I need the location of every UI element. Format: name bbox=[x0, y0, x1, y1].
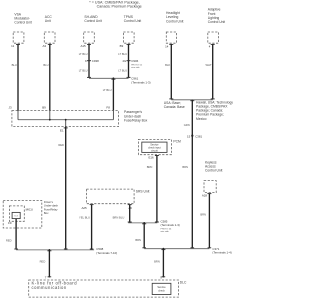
svg-text:C381: C381 bbox=[195, 135, 202, 139]
svg-text:11: 11 bbox=[11, 44, 14, 48]
svg-text:J3: J3 bbox=[9, 105, 12, 109]
svg-text:(Terminals 7-10): (Terminals 7-10) bbox=[96, 251, 117, 255]
svg-text:Service: Service bbox=[157, 286, 166, 289]
svg-text:SRS Unit: SRS Unit bbox=[136, 190, 150, 194]
svg-text:Unit: Unit bbox=[45, 19, 51, 23]
svg-text:E1: E1 bbox=[60, 129, 64, 133]
svg-text:communication: communication bbox=[32, 285, 67, 290]
svg-text:LT BLU: LT BLU bbox=[103, 88, 112, 92]
svg-text:Control Unit: Control Unit bbox=[166, 19, 183, 23]
svg-text:BLK: BLK bbox=[165, 63, 170, 67]
svg-text:Control Unit: Control Unit bbox=[124, 19, 141, 23]
svg-text:BRN: BRN bbox=[135, 238, 141, 242]
svg-text:RED: RED bbox=[58, 143, 64, 147]
svg-text:RED: RED bbox=[6, 239, 12, 243]
svg-text:F9: F9 bbox=[8, 221, 12, 225]
svg-text:BRN: BRN bbox=[154, 259, 160, 263]
svg-text:15: 15 bbox=[187, 135, 191, 139]
svg-text:(Terminals 1-3): (Terminals 1-3) bbox=[131, 80, 150, 84]
svg-text:LT BLU: LT BLU bbox=[118, 52, 127, 56]
svg-text:Fuse/Relay: Fuse/Relay bbox=[44, 207, 58, 211]
svg-text:MICU: MICU bbox=[26, 207, 33, 211]
svg-text:Canada: Premium Package: Canada: Premium Package bbox=[97, 5, 142, 9]
svg-text:A3: A3 bbox=[42, 44, 46, 48]
svg-text:(Terminals 1-3): (Terminals 1-3) bbox=[161, 223, 180, 227]
svg-text:Control Unit: Control Unit bbox=[14, 21, 31, 25]
svg-text:C906: C906 bbox=[131, 59, 138, 63]
svg-text:WHT: WHT bbox=[205, 63, 211, 67]
svg-text:BRN: BRN bbox=[182, 165, 188, 169]
svg-text:wire side: wire side bbox=[131, 66, 140, 69]
svg-text:F8: F8 bbox=[106, 105, 110, 109]
svg-text:PCM: PCM bbox=[173, 140, 181, 144]
svg-text:Driver's: Driver's bbox=[44, 200, 54, 204]
svg-text:A28: A28 bbox=[202, 193, 208, 197]
svg-text:Control Unit: Control Unit bbox=[205, 169, 222, 173]
svg-text:Box: Box bbox=[44, 211, 49, 215]
svg-text:Mexico: Mexico bbox=[196, 117, 207, 121]
svg-text:BLU: BLU bbox=[43, 63, 48, 67]
svg-text:BRN BLU: BRN BLU bbox=[113, 215, 125, 219]
svg-text:LT BLU: LT BLU bbox=[79, 52, 88, 56]
svg-text:B9: B9 bbox=[42, 105, 46, 109]
svg-text:(Terminals 1-4): (Terminals 1-4) bbox=[212, 251, 231, 255]
svg-text:A15: A15 bbox=[80, 44, 86, 48]
svg-text:A25: A25 bbox=[81, 206, 87, 210]
svg-text:BRN: BRN bbox=[200, 212, 206, 216]
svg-text:Control Unit: Control Unit bbox=[84, 19, 101, 23]
svg-text:C938: C938 bbox=[92, 59, 99, 63]
svg-text:BRN: BRN bbox=[147, 165, 153, 169]
svg-text:Under-dash: Under-dash bbox=[44, 204, 59, 208]
svg-text:14: 14 bbox=[165, 45, 169, 49]
svg-text:wire side: wire side bbox=[161, 230, 170, 233]
svg-text:circuit: circuit bbox=[151, 149, 158, 152]
svg-text:Canada: Base: Canada: Base bbox=[164, 105, 185, 109]
svg-text:LT BLU: LT BLU bbox=[118, 68, 127, 72]
svg-text:RED: RED bbox=[40, 259, 46, 263]
svg-text:Fuse/Relay Box: Fuse/Relay Box bbox=[124, 119, 148, 123]
svg-text:LT BLU: LT BLU bbox=[79, 68, 88, 72]
svg-text:YEL BLU: YEL BLU bbox=[79, 215, 90, 219]
svg-text:DLC: DLC bbox=[180, 281, 187, 285]
svg-text:Control Unit: Control Unit bbox=[208, 20, 225, 24]
svg-text:B9: B9 bbox=[120, 44, 124, 48]
svg-text:E16: E16 bbox=[148, 155, 154, 159]
svg-text:BLU: BLU bbox=[12, 63, 17, 67]
svg-text:GRN: GRN bbox=[184, 123, 190, 127]
svg-text:check: check bbox=[158, 289, 165, 292]
